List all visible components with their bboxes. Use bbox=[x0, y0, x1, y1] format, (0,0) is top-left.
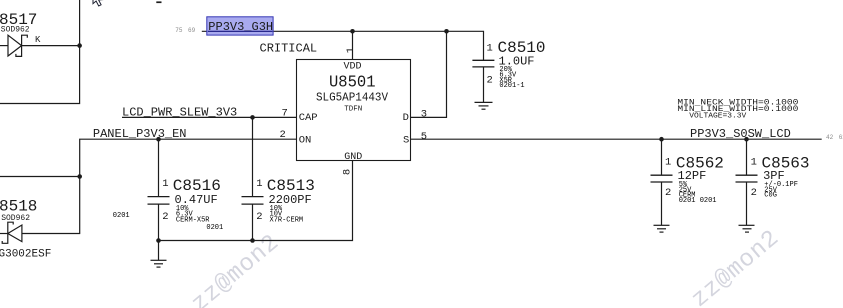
wire: D8518 anode stub bbox=[0, 233, 8, 235]
junction: C8513 tap bbox=[250, 115, 255, 120]
pin number 8 (rotated) bbox=[342, 169, 354, 175]
wire: left stub at y=176 bbox=[0, 176, 80, 178]
wire: VDD riser pin 1 bbox=[352, 31, 354, 59]
pin number 1 (VDD, rotated) bbox=[345, 47, 357, 53]
stray dash bbox=[156, 1, 161, 3]
capacitor C8516 bbox=[148, 139, 170, 240]
svg-text:2: 2 bbox=[162, 211, 168, 223]
junction: rail at C8513 bbox=[250, 238, 255, 243]
capacitor C8563 bbox=[736, 139, 758, 225]
capacitor C8562 bbox=[651, 139, 673, 225]
svg-text:0201: 0201 bbox=[206, 224, 223, 232]
ground (C8563) bbox=[739, 225, 755, 232]
wire: PANEL_P3V3_EN to pin 2 bbox=[80, 139, 297, 233]
junction: C8563 tap bbox=[744, 137, 749, 142]
wire: vertical net at left top (D8517 cathode net) bbox=[0, 0, 80, 104]
watermark 2 bbox=[687, 225, 785, 308]
svg-text:X7R-CERM: X7R-CERM bbox=[270, 216, 304, 224]
svg-text:0201 0201: 0201 0201 bbox=[679, 197, 717, 205]
svg-text:GND: GND bbox=[344, 152, 362, 163]
svg-text:1: 1 bbox=[487, 43, 493, 55]
svg-text:CERM-X5R: CERM-X5R bbox=[176, 216, 210, 224]
svg-text:CRITICAL: CRITICAL bbox=[260, 42, 318, 56]
capacitor C8510 bbox=[472, 60, 494, 102]
svg-text:5: 5 bbox=[421, 131, 427, 143]
wire: D8517 cathode to vertical bbox=[22, 45, 81, 47]
junction: C8516 tap bbox=[156, 137, 161, 142]
svg-text:0201-1: 0201-1 bbox=[499, 82, 524, 90]
junction: D8517 net bbox=[77, 43, 82, 48]
svg-text:75: 75 bbox=[175, 27, 183, 34]
svg-text:SOD962: SOD962 bbox=[1, 26, 30, 35]
svg-text:ON: ON bbox=[299, 135, 312, 147]
svg-text:8: 8 bbox=[342, 169, 354, 175]
svg-text:61: 61 bbox=[839, 134, 843, 141]
svg-text:2: 2 bbox=[665, 187, 671, 199]
svg-text:1: 1 bbox=[345, 47, 357, 53]
ground (C8510) bbox=[475, 102, 493, 109]
svg-text:VOLTAGE=3.3V: VOLTAGE=3.3V bbox=[689, 113, 747, 121]
svg-text:TDFN: TDFN bbox=[344, 105, 362, 113]
svg-text:1: 1 bbox=[162, 178, 168, 190]
wire: chip GND riser pin 8 bbox=[159, 161, 353, 241]
svg-text:K: K bbox=[35, 35, 41, 45]
capacitor C8513 bbox=[242, 117, 264, 240]
svg-text:42: 42 bbox=[826, 134, 834, 141]
svg-text:1: 1 bbox=[256, 178, 262, 190]
diode D8518 bbox=[2, 222, 22, 243]
junction: VDD tap bbox=[350, 29, 355, 34]
wire: D pin riser bbox=[411, 31, 447, 117]
ground (GND rail) bbox=[151, 241, 167, 268]
svg-text:C8516: C8516 bbox=[173, 177, 221, 195]
svg-text:1: 1 bbox=[665, 157, 671, 169]
wire: D8517 anode stub bbox=[0, 45, 8, 47]
wire: vertical at left (D8518 cathode net corner) bbox=[22, 233, 80, 235]
svg-text:SLG5AP1443V: SLG5AP1443V bbox=[316, 91, 389, 105]
svg-text:CAP: CAP bbox=[299, 112, 318, 124]
op-amp U8501 body bbox=[297, 60, 411, 161]
watermark 1 bbox=[187, 229, 285, 308]
svg-text:PP3V3_S0SW_LCD: PP3V3_S0SW_LCD bbox=[690, 127, 791, 141]
junction: D riser tap bbox=[444, 29, 449, 34]
junction: left stub on EN riser bbox=[77, 174, 82, 179]
diode D8517 bbox=[8, 35, 27, 56]
svg-text:VDD: VDD bbox=[344, 62, 362, 73]
mouse cursor bbox=[93, 0, 103, 6]
svg-text:1: 1 bbox=[751, 157, 757, 169]
svg-text:2: 2 bbox=[256, 211, 262, 223]
svg-text:0201: 0201 bbox=[113, 212, 130, 220]
svg-text:D: D bbox=[403, 112, 409, 124]
svg-text:8518: 8518 bbox=[0, 198, 37, 216]
junction: C8562 tap bbox=[659, 137, 664, 142]
ground (C8562) bbox=[654, 225, 670, 232]
net PP3V3_G3H highlighted bbox=[207, 17, 273, 35]
svg-text:S: S bbox=[403, 135, 409, 147]
svg-text:2: 2 bbox=[751, 187, 757, 199]
svg-text:C8513: C8513 bbox=[267, 177, 315, 195]
wire: PP3V3_G3H rail bbox=[202, 31, 484, 60]
svg-text:2: 2 bbox=[487, 75, 493, 87]
svg-text:3: 3 bbox=[421, 108, 427, 120]
svg-text:C0G: C0G bbox=[764, 192, 777, 200]
svg-text:SOD962: SOD962 bbox=[1, 214, 30, 223]
wire: S pin run PP3V3_S0SW_LCD bbox=[411, 138, 822, 140]
wire: LCD_PWR_SLEW_3V3 to pin 7 bbox=[122, 116, 297, 118]
svg-text:G3002ESF: G3002ESF bbox=[0, 248, 51, 260]
svg-text:69: 69 bbox=[188, 27, 196, 34]
junction: rail at C8516 bbox=[156, 238, 161, 243]
